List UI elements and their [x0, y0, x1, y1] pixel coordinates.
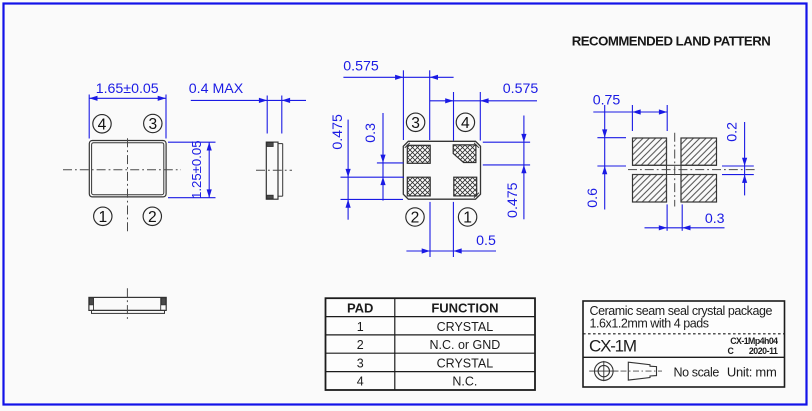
svg-text:1.65±0.05: 1.65±0.05 [96, 81, 159, 97]
svg-text:1.6x1.2mm with 4 pads: 1.6x1.2mm with 4 pads [590, 316, 709, 330]
svg-text:0.75: 0.75 [593, 92, 621, 108]
svg-text:1.25±0.05: 1.25±0.05 [189, 140, 204, 199]
svg-text:2: 2 [411, 210, 420, 227]
svg-text:0.4 MAX: 0.4 MAX [189, 81, 244, 97]
svg-text:CRYSTAL: CRYSTAL [437, 320, 494, 334]
svg-text:3: 3 [411, 115, 420, 132]
svg-text:3: 3 [148, 116, 157, 133]
svg-text:1: 1 [463, 210, 472, 227]
svg-text:0.475: 0.475 [505, 182, 521, 218]
svg-text:FUNCTION: FUNCTION [431, 300, 498, 315]
svg-text:PAD: PAD [347, 300, 373, 315]
svg-text:4: 4 [461, 115, 470, 132]
svg-text:2: 2 [148, 209, 157, 226]
svg-text:No scale: No scale [673, 365, 719, 379]
svg-text:2: 2 [357, 338, 364, 352]
svg-text:CX-1M: CX-1M [589, 337, 636, 356]
svg-text:0.575: 0.575 [503, 81, 539, 97]
svg-text:0.575: 0.575 [343, 58, 379, 74]
svg-text:RECOMMENDED LAND PATTERN: RECOMMENDED LAND PATTERN [572, 34, 771, 49]
svg-text:Unit: mm: Unit: mm [727, 364, 777, 379]
svg-text:0.5: 0.5 [476, 233, 496, 249]
svg-text:CRYSTAL: CRYSTAL [437, 356, 494, 370]
svg-text:1: 1 [98, 209, 107, 226]
svg-text:N.C. or GND: N.C. or GND [429, 338, 500, 352]
svg-text:0.6: 0.6 [585, 188, 601, 208]
svg-text:3: 3 [357, 356, 364, 370]
svg-text:2020-11: 2020-11 [749, 346, 778, 356]
svg-text:C: C [728, 346, 735, 356]
svg-text:CX-1Mp4h04: CX-1Mp4h04 [730, 336, 778, 346]
svg-text:0.475: 0.475 [330, 114, 346, 150]
svg-text:4: 4 [98, 116, 107, 133]
svg-text:0.2: 0.2 [724, 122, 740, 142]
svg-text:0.3: 0.3 [363, 123, 379, 143]
svg-text:1: 1 [357, 320, 364, 334]
svg-text:N.C.: N.C. [452, 375, 477, 389]
svg-text:4: 4 [357, 375, 364, 389]
svg-text:0.3: 0.3 [705, 211, 725, 227]
